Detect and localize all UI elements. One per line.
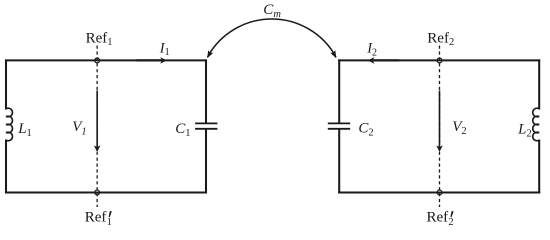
current arrow I2 <box>368 57 400 64</box>
voltage arrow V2 <box>436 91 443 153</box>
node Ref1 dashed reference line <box>96 46 98 208</box>
wire: right loop right side upper <box>538 60 540 108</box>
capacitor C1 <box>196 123 217 128</box>
wire: left loop right side lower (from C1) <box>205 130 207 193</box>
svg-text:C1: C1 <box>175 121 190 139</box>
svg-text:L1: L1 <box>17 121 32 139</box>
svg-text:Ref: Ref <box>85 209 107 225</box>
wire: left loop left side upper <box>5 60 7 108</box>
wire: left loop left side lower <box>5 141 7 193</box>
svg-text:I1: I1 <box>159 40 170 58</box>
svg-text:C2: C2 <box>358 120 373 138</box>
svg-text:I2: I2 <box>366 41 377 59</box>
coupling arc Cm <box>205 19 339 60</box>
voltage arrow V1 <box>94 91 101 153</box>
inductor L2 <box>533 108 539 141</box>
wire: left loop top <box>6 59 206 61</box>
node circle Ref1' bottom <box>95 190 100 195</box>
node circle Ref2' bottom <box>437 190 442 195</box>
svg-text:Ref1: Ref1 <box>86 31 113 49</box>
svg-text:L2: L2 <box>517 121 532 139</box>
wire: right loop bottom <box>339 191 539 193</box>
wire: right loop top <box>339 59 539 61</box>
wire: right loop right side lower <box>538 141 540 193</box>
inductor L1 <box>6 108 12 141</box>
capacitor C2 <box>329 123 350 128</box>
svg-text:Ref2: Ref2 <box>427 31 454 49</box>
current arrow I1 <box>136 57 167 64</box>
wire: left loop right side upper (to C1) <box>205 60 207 122</box>
svg-text:Ref: Ref <box>427 209 449 225</box>
node Ref2 dashed reference line <box>439 46 441 208</box>
wire: right loop left side lower (from C2) <box>338 130 340 193</box>
svg-text:V1: V1 <box>72 119 86 138</box>
svg-text:1: 1 <box>107 217 112 228</box>
svg-text:Cm: Cm <box>263 2 281 20</box>
node circle Ref2 top <box>437 58 442 63</box>
wire: right loop left side upper (to C2) <box>338 60 340 122</box>
wire: left loop bottom <box>6 191 206 193</box>
node circle Ref1 top <box>95 58 100 63</box>
svg-text:V2: V2 <box>452 119 466 137</box>
svg-text:2: 2 <box>448 217 453 228</box>
